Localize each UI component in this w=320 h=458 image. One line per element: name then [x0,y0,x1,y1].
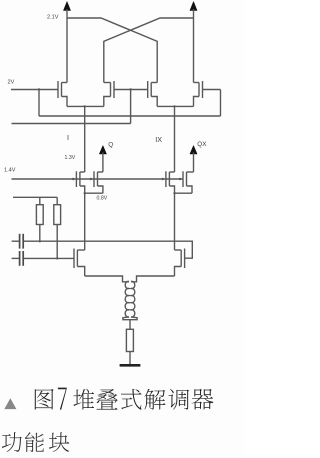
transistor B2 (RF input NMOS right, mirrored) [175,249,185,277]
wire: QX output stem to M4 drain [193,153,195,173]
wire: LO rail B (inner gates) [12,123,131,125]
ground [120,364,141,367]
inductor L1 right strand [131,281,135,317]
wire: left VDD vertical to T1 drain [66,9,68,83]
svg-text:2V: 2V [8,80,15,86]
transistor M3 (IX mixer cascode NMOS) [166,171,175,193]
node: M3 gate junction [162,178,164,180]
power supply arrow 2.1V (left VDD) [63,2,70,11]
caption char 7 [58,388,67,410]
node: M2 gate junction [90,178,92,180]
caption char 能 [25,432,44,452]
node: R2-C2 junction [56,257,58,259]
resistor R3 [126,329,133,351]
caption char 图 [35,389,54,410]
node: right pair tail junction [173,105,175,107]
node: R1-C1 junction [39,240,41,242]
node: left mixer tail junction [84,192,86,194]
caption char 堆 [73,389,94,410]
wire: C1 RF+ line to B2 gate [24,241,192,258]
wire: T4 gate down to LO rail A [220,90,222,117]
transistor M2 (Q output NMOS) [94,171,103,193]
node: left pair tail junction [84,105,86,107]
capacitor C2 [12,251,24,266]
transistor T4 (top-right pair, right NMOS, mirrored) [194,81,221,106]
inductor L1 bottom joint [123,317,137,320]
caption char 解 [144,389,165,410]
transistor B1 (RF input NMOS left) [74,249,85,277]
wire: Q output stem to M2 drain [102,153,104,173]
node: 2V gate junction [38,88,40,90]
caption char 叠 [97,389,118,410]
wire: bias resistor rail [13,196,57,198]
caption char 块 [49,432,69,452]
caption marker triangle [4,398,16,409]
svg-text:Q: Q [108,141,113,148]
svg-text:I: I [67,133,69,142]
wire: junction down to LO rail A [38,90,40,117]
resistor R2 [54,197,61,258]
svg-text:1.4V: 1.4V [4,167,16,173]
svg-text:2.1V: 2.1V [47,14,59,20]
wire: right tail down to M3 drain [174,106,176,172]
svg-text:1.3V: 1.3V [65,155,76,161]
wire: right pair source rail [157,105,193,107]
transistor M4 (QX output NMOS) [183,171,194,193]
node: M1 gate junction [72,178,74,180]
wire: right rail cross-couple diagonal to T2 drain [104,18,194,83]
wire: right mixer source rail [175,192,193,194]
svg-text:QX: QX [197,141,207,148]
caption char 调 [168,389,189,410]
wire: coil to R3 [129,320,131,330]
caption char 功 [2,432,22,452]
capacitor C1 [12,234,24,249]
output arrow QX [190,146,197,155]
resistor R1 [36,197,43,241]
caption char 器 [192,389,214,410]
caption char 式 [121,389,142,410]
node: right mixer tail junction [173,192,175,194]
wire: inner gate junction down to LO rail B [130,90,132,124]
power supply arrow (right VDD) [190,2,197,11]
node: M4 gate junction [179,178,181,180]
transistor T3 (top-right pair, left NMOS) [148,81,158,106]
wire: C2 RF- line to B1 gate [24,257,74,259]
transistor M1 (I mixer cascode NMOS) [76,171,84,193]
inductor L1 left strand [125,281,129,317]
svg-text:0.8V: 0.8V [97,195,108,201]
transistor T2 (top-left pair, right NMOS, mirrored) [104,81,148,106]
node: inner gates junction [129,88,131,90]
wire: left tail down to B1 drain [84,193,86,250]
wire: B2 source rail to coil [131,276,175,282]
wire: right VDD vertical to T4 drain [193,9,195,83]
wire: B1 source rail to coil [85,276,129,282]
wire: left mixer source rail 0.8V [85,192,103,194]
wire: left rail cross-couple diagonal to T3 drain [67,18,157,83]
wire: LO rail A (outer gates) [39,115,221,117]
output arrow Q [99,146,106,155]
svg-text:IX: IX [155,135,162,144]
wire: left pair source rail [67,105,104,107]
wire: left tail down to M1 drain [84,106,86,172]
wire: right tail down to B2 drain [174,193,176,250]
wire: R3 to ground [129,352,131,365]
wire: 1.4V gate rail [12,178,184,180]
transistor T1 (top-left pair, left NMOS) [11,81,67,106]
